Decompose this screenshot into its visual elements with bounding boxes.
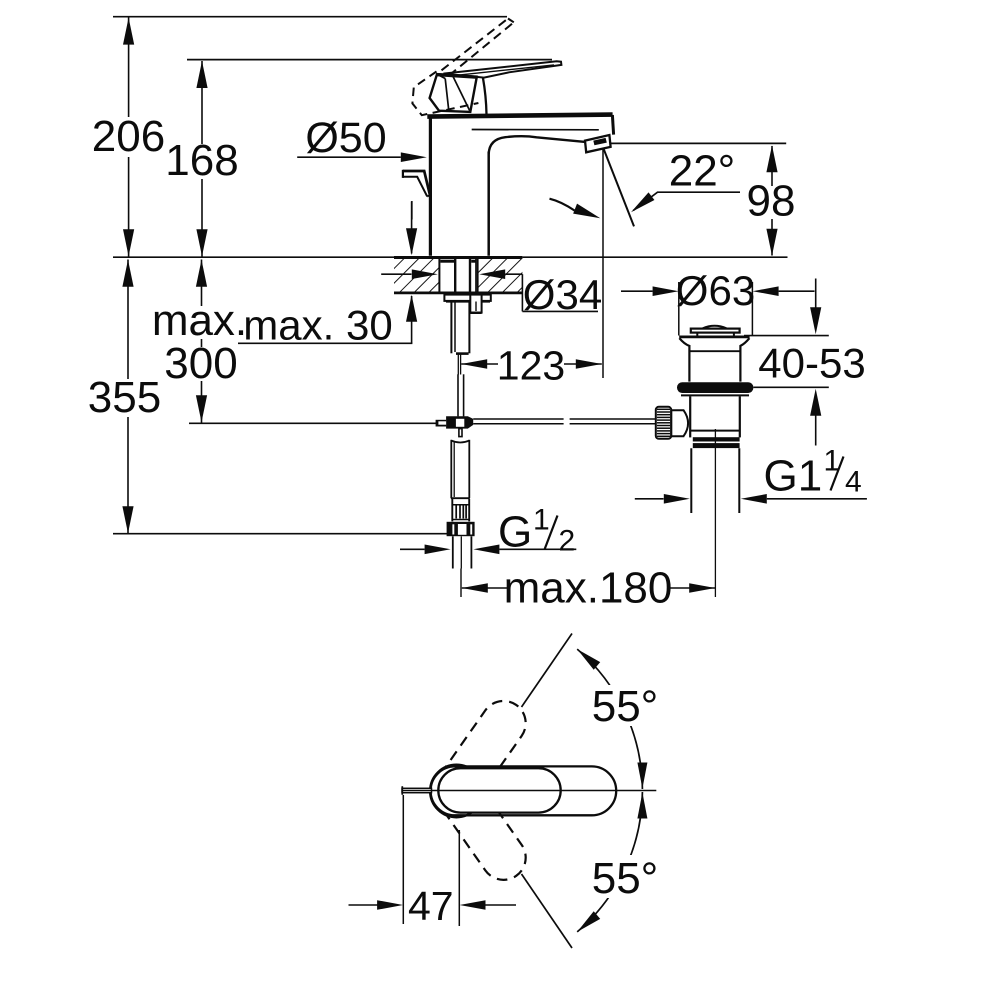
arrowhead Ø34 right xyxy=(479,269,505,279)
drain bell joint line xyxy=(689,350,740,352)
svg-text:max. 30: max. 30 xyxy=(243,302,392,349)
arrowhead max180 right xyxy=(689,583,715,593)
svg-text:55°: 55° xyxy=(592,682,659,731)
lever handle blade xyxy=(443,61,561,77)
arrowhead 98 top xyxy=(766,145,777,172)
pull rod pin left xyxy=(457,354,459,375)
pop-up rod in deck hole xyxy=(475,259,477,295)
dimension line 47 left tail xyxy=(349,904,378,906)
arrowhead 22° leader xyxy=(628,192,654,216)
svg-text:55°: 55° xyxy=(592,854,659,903)
pull rod to drain (horizontal) xyxy=(473,418,563,420)
dimension line G1/2 right tail xyxy=(499,548,576,550)
svg-text:123: 123 xyxy=(497,343,565,389)
dimension line 40-53 upper shaft xyxy=(815,279,817,317)
label 123 xyxy=(498,354,564,382)
extension line 47 left xyxy=(402,795,404,924)
water flow arrowhead xyxy=(573,204,602,224)
hose end joint line xyxy=(451,497,470,499)
pop-up rod inside guide xyxy=(475,302,477,312)
dimension line 206 xyxy=(128,18,130,257)
drain body band 2 xyxy=(693,443,740,448)
drain bell left side xyxy=(679,338,689,381)
pull rod end plug xyxy=(436,420,447,427)
top view: cartridge stem stub xyxy=(402,788,432,792)
svg-text:98: 98 xyxy=(747,177,796,226)
extension line: spout outlet height (98 datum) xyxy=(604,142,787,144)
drain body left wall xyxy=(689,396,691,437)
countertop bottom surface line xyxy=(394,291,522,294)
arrowhead 206 top xyxy=(123,18,134,45)
drain ball joint curve xyxy=(684,410,689,436)
mounting stud bottom cap xyxy=(456,352,469,355)
top view: horizontal center line xyxy=(402,790,656,792)
arrowhead Ø63 right xyxy=(753,286,779,296)
hub facet line b xyxy=(445,79,449,110)
hub facet line c xyxy=(452,75,470,112)
dimension line 47 right tail xyxy=(486,904,517,906)
drain tailpipe right wall xyxy=(738,448,740,513)
hub facet line a xyxy=(437,74,445,78)
faucet base edge in hole right xyxy=(471,260,476,263)
flexible supply hose xyxy=(450,440,452,498)
extension line: top of closed lever (168 datum) xyxy=(187,59,552,61)
hose end spline section xyxy=(451,499,453,522)
dimension line G1-1/4 right tail xyxy=(767,498,867,500)
drain bell right side xyxy=(740,338,749,381)
level line 40-53 bottom xyxy=(754,386,829,388)
drain cap skirt left xyxy=(696,333,698,336)
svg-text:max.: max. xyxy=(152,296,247,345)
aerator slot xyxy=(593,138,607,145)
arrowhead 123 right xyxy=(576,359,602,369)
dimension line G1/2 left tail xyxy=(400,548,425,550)
countertop top surface line xyxy=(394,256,522,259)
drain cap skirt right xyxy=(733,333,735,336)
top view: radial line -55° xyxy=(522,874,573,948)
leader line max30 xyxy=(238,342,412,344)
dimension line max300 xyxy=(201,260,203,423)
spout underside inner line xyxy=(472,129,599,131)
drain body right wall xyxy=(739,396,741,437)
extension line drain flange right xyxy=(751,282,753,336)
arrowhead 40-53 up xyxy=(810,389,821,416)
top view: handle outer stadium xyxy=(431,766,617,815)
dimension line 168 xyxy=(201,61,203,257)
extension line: countertop datum left xyxy=(113,256,394,258)
dimension line max30 upper xyxy=(411,201,413,253)
svg-text:Ø50: Ø50 xyxy=(305,114,386,162)
G1/2 threaded pipe end xyxy=(452,536,454,568)
extension line 47 right xyxy=(458,830,460,926)
label 300 xyxy=(165,347,237,381)
mounting stud right wall xyxy=(468,301,470,353)
pin below cross fitting xyxy=(459,429,462,437)
svg-text:300: 300 xyxy=(164,339,237,388)
supply tube left wall xyxy=(457,374,459,416)
extension line: top of open lever (206 datum) xyxy=(113,16,507,18)
label 55° upper xyxy=(584,685,664,726)
svg-text:G1: G1 xyxy=(764,452,823,501)
label max. xyxy=(154,306,246,339)
arrowhead max300 bottom xyxy=(196,395,207,422)
label 168 xyxy=(169,144,235,179)
arrowhead G1/2 right xyxy=(473,545,499,555)
water flow curved arrow xyxy=(550,199,575,211)
leader Ø34 vertical xyxy=(521,274,523,311)
open lever dashed upper edge xyxy=(442,19,509,71)
water stream line 22 degrees xyxy=(602,146,634,227)
leader line max300 to cross fitting xyxy=(189,422,437,424)
drain knurled adjuster knob xyxy=(656,407,671,439)
extension line drain flange left xyxy=(678,282,680,336)
open lever dashed tip xyxy=(508,19,514,23)
dimension line Ø50 xyxy=(297,156,401,158)
top view: stub end cap xyxy=(401,786,403,795)
arrowhead max30 down xyxy=(406,228,417,255)
countertop hatched section right xyxy=(479,259,523,293)
extension line: bottom of supply hose (355 datum) xyxy=(113,533,474,535)
drain pop-up cap dome xyxy=(703,326,727,329)
svg-text:Ø34: Ø34 xyxy=(523,271,602,318)
mounting washer bottom edge xyxy=(446,300,490,303)
top view: handle grip (solid) xyxy=(438,768,560,812)
dimension line max180 xyxy=(462,587,715,589)
spout fill xyxy=(488,115,614,152)
svg-text:22°: 22° xyxy=(669,147,736,196)
svg-text:40-53: 40-53 xyxy=(758,340,865,387)
faucet body left edge xyxy=(429,115,432,256)
arrowhead max300 top xyxy=(196,260,207,287)
deck hole left edge xyxy=(438,259,440,292)
arrowhead G1/2 left xyxy=(425,545,451,555)
svg-text:47: 47 xyxy=(408,883,454,929)
spout right end edge xyxy=(612,115,613,135)
arrowhead max30 up xyxy=(406,295,417,322)
svg-text:G: G xyxy=(498,508,532,557)
top view: dashed handle rotated up 55° xyxy=(428,692,535,818)
faucet top plate xyxy=(427,115,612,117)
arrowhead arc upper at line xyxy=(637,763,647,789)
dimension line 123 xyxy=(461,363,602,365)
open lever artifact line xyxy=(411,201,413,220)
svg-text:168: 168 xyxy=(165,136,238,185)
dimension line Ø34 right tail xyxy=(505,273,522,275)
arrowhead 168 bottom xyxy=(196,229,207,256)
svg-text:206: 206 xyxy=(92,112,165,161)
arrowhead max180 left xyxy=(462,583,488,593)
svg-text:4: 4 xyxy=(845,466,862,499)
threaded shank left wall xyxy=(454,259,456,295)
arrowhead 168 top xyxy=(196,61,207,88)
dimension line max30 lower xyxy=(411,296,413,343)
label 55° lower xyxy=(588,855,666,898)
lever hook tip xyxy=(427,195,430,197)
label 206 xyxy=(92,117,165,157)
drain pop-up cap plate xyxy=(691,329,740,333)
arrowhead 40-53 down xyxy=(810,307,821,334)
extension line hose end for max180 xyxy=(460,569,462,598)
aerator xyxy=(585,135,611,152)
deck hole right edge xyxy=(477,259,479,292)
top view: handle hub circle xyxy=(430,765,483,818)
arrowhead arc lower at line xyxy=(637,793,647,819)
top view: angle arc upper xyxy=(577,649,642,789)
drain body lower joint xyxy=(690,430,740,432)
drain tailpipe left wall xyxy=(690,448,692,513)
svg-text:1: 1 xyxy=(533,504,550,537)
svg-text:Ø63: Ø63 xyxy=(676,267,755,314)
arrowhead 98 bottom xyxy=(766,229,777,256)
mounting stud left wall xyxy=(450,301,452,353)
dimension line 355 xyxy=(127,260,129,534)
threaded shank right wall xyxy=(469,259,471,295)
pull rod pin right xyxy=(460,354,462,375)
pop-up rod guide tube xyxy=(470,295,481,313)
countertop hatched section left xyxy=(394,259,439,293)
drain center line xyxy=(714,429,716,597)
drain seal lower line xyxy=(681,394,749,396)
supply tube right wall xyxy=(463,374,465,416)
dimension line 40-53 lower shaft xyxy=(815,407,817,446)
arrowhead 206 bottom xyxy=(123,229,134,256)
faucet base edge in hole left xyxy=(440,260,454,263)
arrowhead 355 bottom xyxy=(122,506,133,533)
arrowhead 47 right xyxy=(460,900,486,910)
svg-text:max.180: max.180 xyxy=(504,564,673,613)
drain knob boss xyxy=(671,410,684,436)
hub top heavy edge xyxy=(437,75,478,78)
arrowhead Ø63 left xyxy=(653,286,679,296)
drain flange top xyxy=(679,336,749,339)
arrowhead Ø34 left xyxy=(412,269,438,279)
arrowhead 123 left xyxy=(461,359,487,369)
level line 40-53 top xyxy=(744,335,829,337)
dimension line G1-1/4 left tail xyxy=(635,498,664,500)
label 355 xyxy=(89,379,161,417)
lever handle hub xyxy=(430,74,477,112)
dimension line Ø63 left tail xyxy=(621,290,653,292)
label max.180 xyxy=(508,574,668,604)
extension line: spout outlet vertical xyxy=(602,146,604,378)
pull rod cross fitting xyxy=(446,416,473,428)
arrowhead 355 top xyxy=(122,260,133,287)
arrowhead Ø50 xyxy=(401,152,427,162)
svg-text:355: 355 xyxy=(88,373,161,422)
arrowhead arc upper end xyxy=(574,645,600,669)
mounting stud inner line xyxy=(454,302,456,353)
dimension line 98 xyxy=(771,146,773,256)
drain body band 1 xyxy=(693,437,740,441)
pop-up rod guide bottom xyxy=(470,312,481,314)
arrowhead G1-1/4 left xyxy=(664,494,690,504)
dimension line Ø34 left tail xyxy=(381,273,411,275)
top view: radial line +55° xyxy=(522,634,573,708)
mounting washer xyxy=(444,295,490,301)
lever neck right edge xyxy=(483,78,487,115)
top view: angle arc lower xyxy=(577,792,642,932)
leader line 22° xyxy=(633,192,740,210)
hose connection nut xyxy=(447,522,475,536)
arrowhead arc lower end xyxy=(574,911,600,935)
label 98 xyxy=(747,186,796,219)
svg-text:2: 2 xyxy=(559,525,576,558)
lever front tip hook xyxy=(403,171,430,195)
arrowhead G1-1/4 right xyxy=(741,494,767,504)
leader Ø34 underline xyxy=(522,310,598,312)
spout underside curve xyxy=(489,136,586,154)
lever hook left cap xyxy=(402,170,404,178)
extension line: countertop datum right xyxy=(522,256,787,258)
faucet body right edge xyxy=(487,152,490,256)
drain rubber seal xyxy=(677,382,753,393)
open lever dashed lower edge xyxy=(449,22,514,75)
faucet body fill xyxy=(429,116,490,256)
lever blade inner line xyxy=(450,65,555,76)
dimension line Ø63 right tail xyxy=(779,290,815,292)
top view: dashed handle rotated down 55° xyxy=(428,763,535,889)
arrowhead 47 left xyxy=(377,900,403,910)
open lever dashed hub xyxy=(412,72,478,116)
